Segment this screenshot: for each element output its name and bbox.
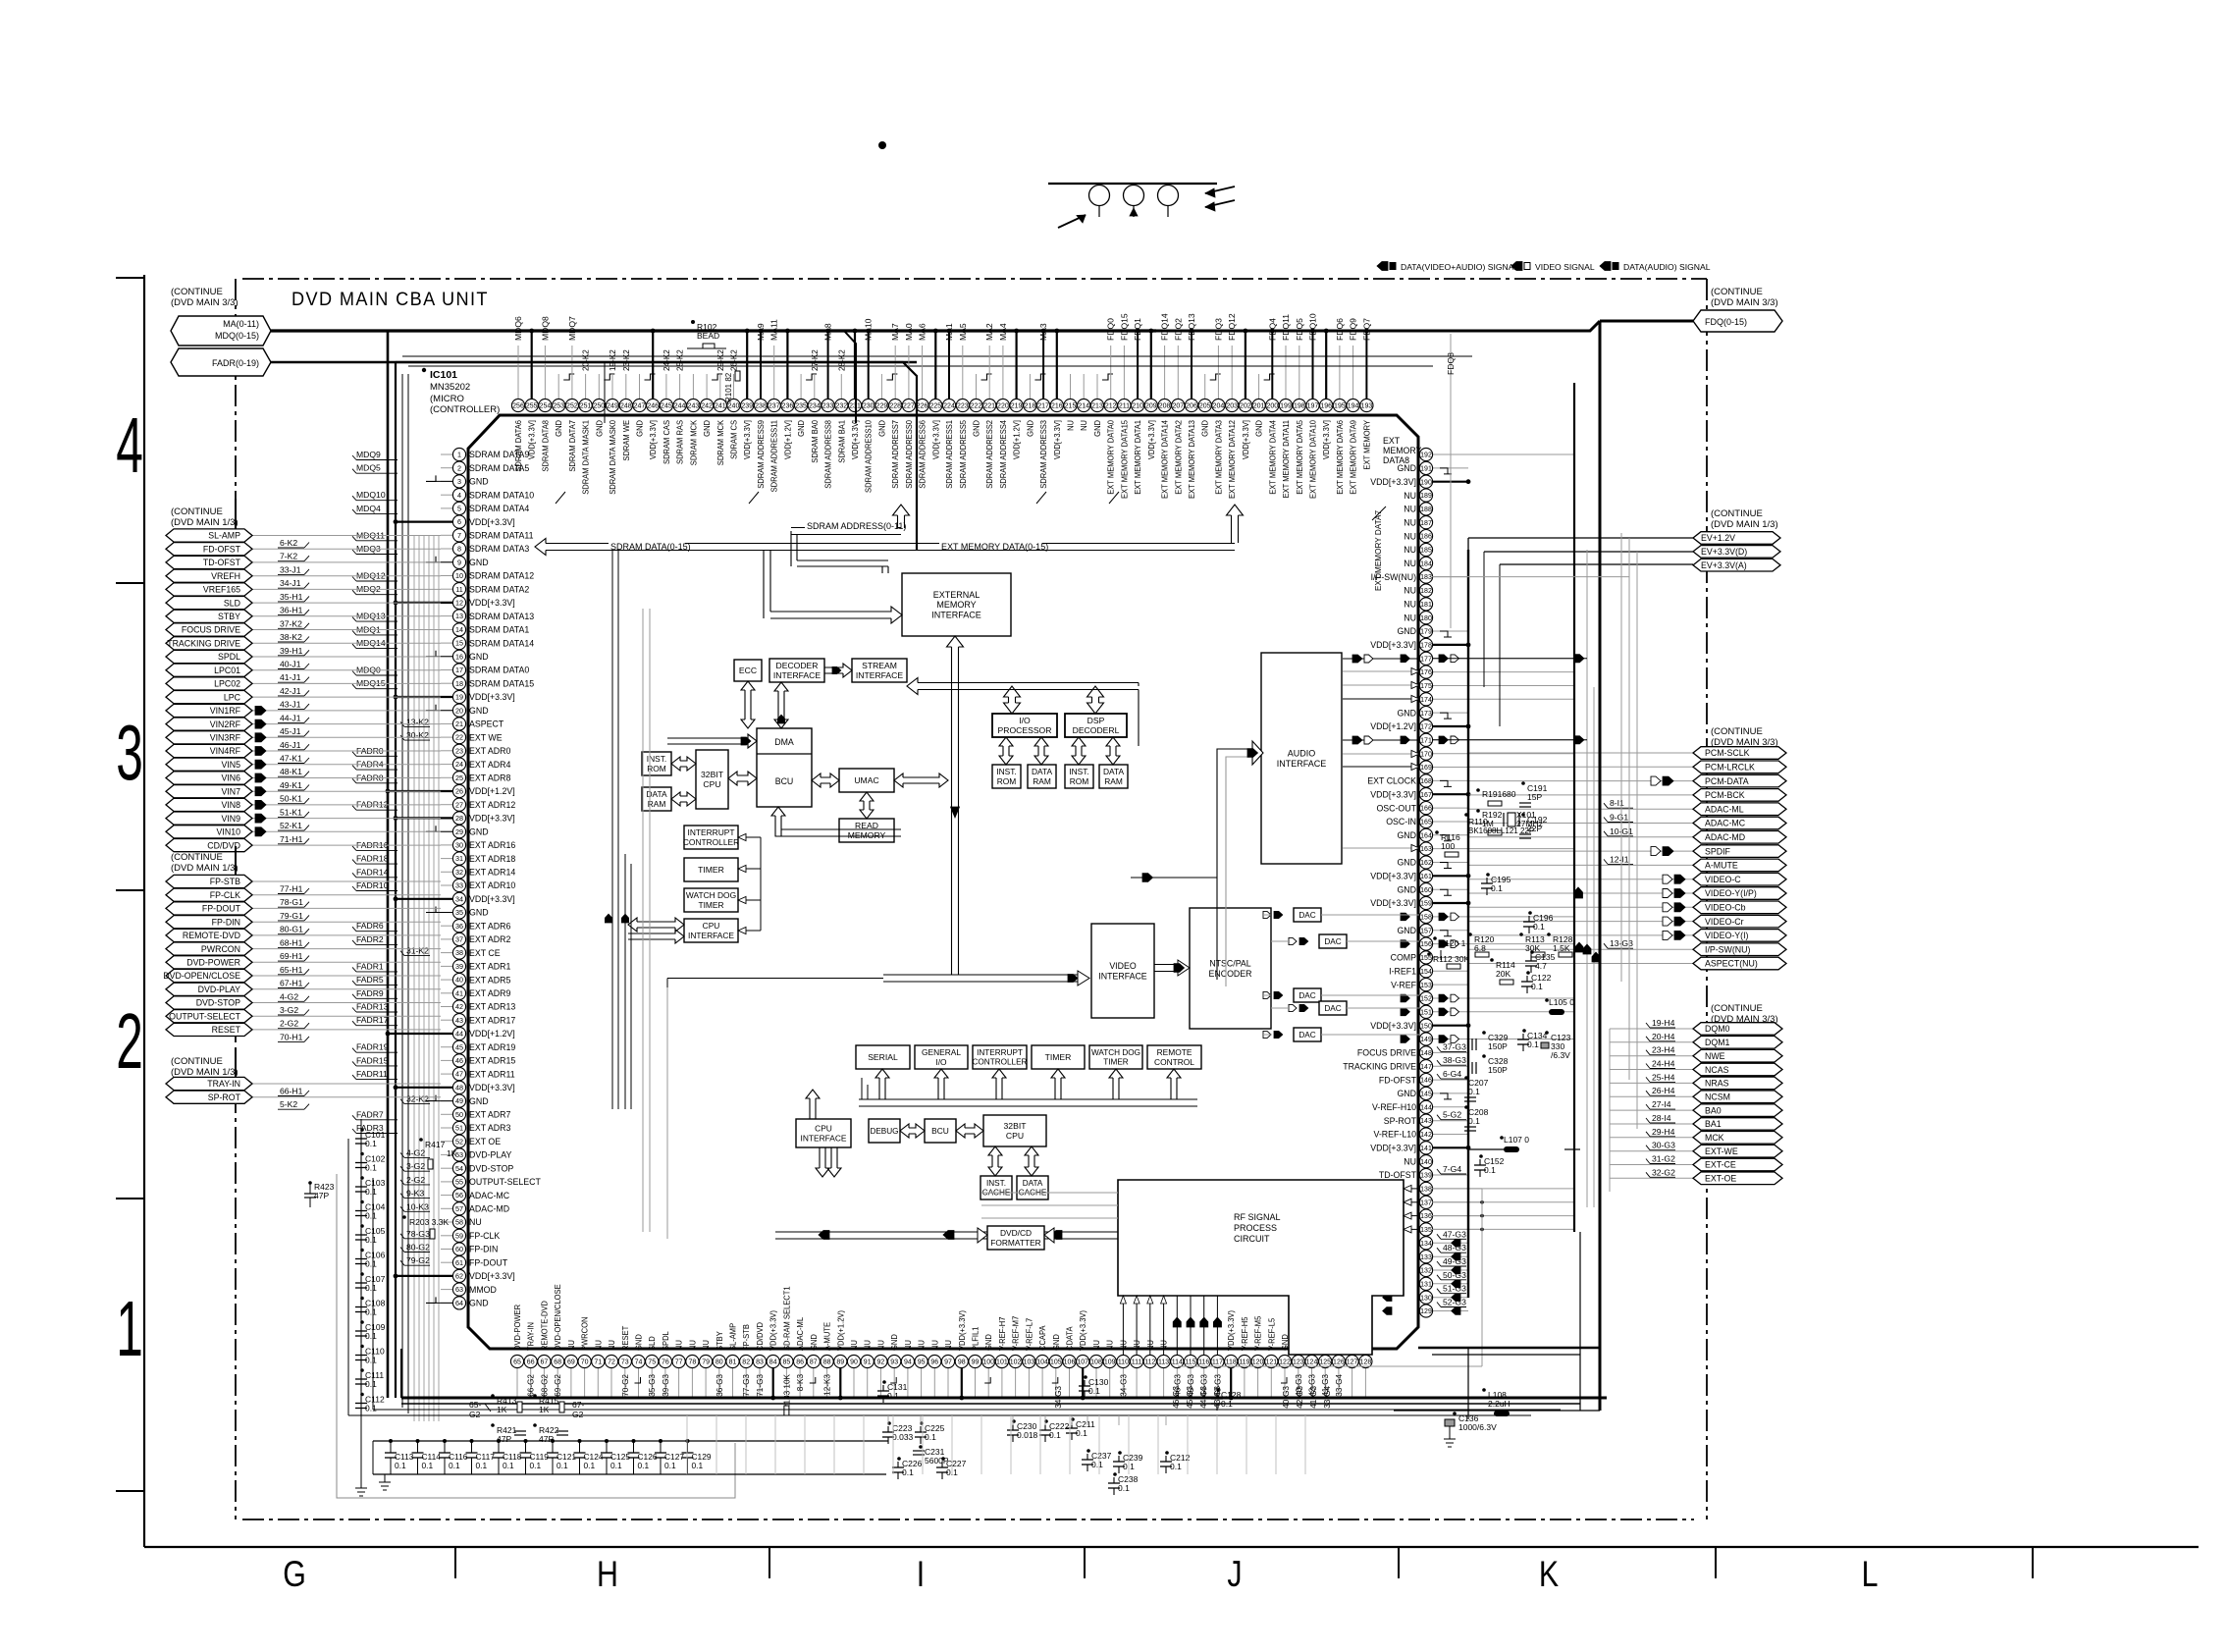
svg-text:L: L <box>1862 1554 1879 1595</box>
svg-text:252: 252 <box>566 403 578 410</box>
svg-text:G2: G2 <box>572 1410 584 1419</box>
svg-text:NU: NU <box>876 1340 886 1351</box>
bus stream crossbar <box>907 678 1139 695</box>
svg-text:GND: GND <box>1200 420 1210 437</box>
svg-text:VIDEO-Cb: VIDEO-Cb <box>1705 903 1746 913</box>
bus tag MA(0-11) MDQ(0-15) <box>171 316 271 346</box>
svg-text:44: 44 <box>455 1030 463 1039</box>
svg-text:GND: GND <box>1093 420 1103 437</box>
svg-text:INTERFACE: INTERFACE <box>931 611 981 620</box>
block 32BIT CPU lower <box>983 1115 1046 1146</box>
svg-text:EXT MEMORY DATA12: EXT MEMORY DATA12 <box>1228 420 1238 499</box>
svg-text:(CONTINUE: (CONTINUE <box>1711 726 1763 737</box>
svg-text:33-J1: 33-J1 <box>280 564 301 574</box>
svg-text:206: 206 <box>1186 403 1197 410</box>
block DATA CACHE <box>1017 1176 1048 1199</box>
svg-text:SDRAM DATA12: SDRAM DATA12 <box>469 571 534 581</box>
svg-text:GND: GND <box>1026 420 1035 437</box>
block REMOTE CONTROL <box>1147 1045 1201 1069</box>
bottom bus wires <box>401 1397 1607 1400</box>
svg-text:EXT MEMORY DATA1: EXT MEMORY DATA1 <box>1134 420 1143 495</box>
svg-text:138: 138 <box>1420 1187 1432 1194</box>
svg-text:DATA(AUDIO) SIGNAL: DATA(AUDIO) SIGNAL <box>1623 262 1711 272</box>
svg-text:ROM: ROM <box>997 776 1017 786</box>
svg-text:VDD[+1.2V]: VDD[+1.2V] <box>469 1029 515 1039</box>
svg-text:EXT ADR0: EXT ADR0 <box>469 746 510 756</box>
svg-text:PCM-SCLK: PCM-SCLK <box>1705 748 1750 758</box>
svg-text:EXT MEMORY DATA11: EXT MEMORY DATA11 <box>1282 420 1292 499</box>
svg-text:BCU: BCU <box>931 1126 949 1136</box>
svg-text:115: 115 <box>1185 1359 1195 1366</box>
svg-text:150P: 150P <box>1488 1041 1508 1051</box>
svg-text:217: 217 <box>1037 403 1049 410</box>
svg-text:86: 86 <box>796 1359 804 1366</box>
svg-text:3-G2: 3-G2 <box>406 1161 425 1171</box>
svg-text:47: 47 <box>455 1070 463 1079</box>
svg-text:DSP: DSP <box>1087 716 1105 725</box>
svg-text:218: 218 <box>1025 403 1036 410</box>
IC101 top pin array pins 256-193 <box>517 346 519 399</box>
svg-text:112: 112 <box>1144 1359 1155 1366</box>
svg-text:19-H4: 19-H4 <box>1652 1018 1675 1028</box>
svg-text:VIDEO SIGNAL: VIDEO SIGNAL <box>1535 262 1595 272</box>
svg-text:FADR15: FADR15 <box>356 1055 389 1065</box>
svg-text:GND: GND <box>555 420 564 437</box>
svg-text:NU: NU <box>1404 559 1416 568</box>
svg-text:EXT ADR4: EXT ADR4 <box>469 760 510 770</box>
resistor R192 1M <box>1476 809 1480 813</box>
svg-text:67-H1: 67-H1 <box>280 979 303 988</box>
svg-text:41-J1: 41-J1 <box>280 672 301 682</box>
capacitor C191 15P <box>1521 781 1525 785</box>
svg-text:SDRAM BA1: SDRAM BA1 <box>837 420 847 463</box>
svg-text:39: 39 <box>455 962 463 971</box>
connector tag NCSM <box>1610 1095 1693 1097</box>
svg-text:MDQ7: MDQ7 <box>567 316 577 341</box>
svg-text:FP-DIN: FP-DIN <box>469 1245 498 1254</box>
bus SDRAM ADDRESS(0-11) <box>893 505 910 528</box>
top-left nested wire corners <box>396 362 917 550</box>
svg-text:102: 102 <box>1010 1359 1022 1366</box>
svg-text:0.1: 0.1 <box>1170 1462 1182 1471</box>
svg-text:MDQ(0-15): MDQ(0-15) <box>215 331 259 341</box>
svg-text:VDD[+3.3V]: VDD[+3.3V] <box>1370 640 1416 650</box>
svg-text:STREAM: STREAM <box>862 661 897 670</box>
svg-text:VDD[+3.3V]: VDD[+3.3V] <box>469 1083 515 1092</box>
svg-text:EXT MEMORY DATA10: EXT MEMORY DATA10 <box>1308 420 1318 499</box>
bus DECODER-STREAM link <box>824 664 852 677</box>
svg-text:78-G3: 78-G3 <box>406 1229 430 1239</box>
svg-text:42-J1: 42-J1 <box>280 686 301 696</box>
svg-text:VDD[+3.3V]: VDD[+3.3V] <box>1322 420 1332 459</box>
svg-text:76: 76 <box>662 1359 669 1366</box>
IC101 bottom pin array pins 65-128 <box>516 1368 518 1398</box>
svg-text:18: 18 <box>455 679 463 688</box>
svg-text:146: 146 <box>1420 1078 1432 1085</box>
svg-text:DECODERL: DECODERL <box>1073 725 1120 735</box>
resistor R114 20K <box>1490 958 1494 962</box>
connector tag VIN2RF <box>251 723 441 725</box>
svg-text:SDRAM MCK: SDRAM MCK <box>715 419 725 465</box>
svg-text:DAC: DAC <box>1298 1031 1315 1039</box>
svg-text:228: 228 <box>889 403 901 410</box>
connector tag PWRCON <box>251 948 441 950</box>
svg-text:VREFH: VREFH <box>211 571 240 581</box>
svg-text:71: 71 <box>594 1359 602 1366</box>
block DATA RAM dsp <box>1099 765 1128 788</box>
svg-text:165: 165 <box>1420 820 1432 826</box>
svg-text:SDRAM DATA15: SDRAM DATA15 <box>469 678 534 688</box>
svg-text:SDRAM DATA MASK0: SDRAM DATA MASK0 <box>609 420 618 495</box>
svg-text:NCAS: NCAS <box>1705 1065 1729 1075</box>
svg-text:31-K2: 31-K2 <box>406 946 429 956</box>
svg-text:148: 148 <box>1420 1050 1432 1057</box>
svg-text:EXT MEMORY DATA13: EXT MEMORY DATA13 <box>1188 420 1197 499</box>
IC101 reference label <box>422 368 426 372</box>
svg-text:TIMER: TIMER <box>698 900 723 910</box>
right trunk lines <box>1573 383 1575 1232</box>
svg-text:47-G3: 47-G3 <box>1443 1229 1466 1239</box>
svg-text:12-I1: 12-I1 <box>1610 854 1629 864</box>
bus to DSP DECODERL <box>1087 686 1104 714</box>
svg-text:CCAPA: CCAPA <box>1038 1325 1048 1351</box>
connector tag VIDEO-Y(I/P) <box>1468 892 1693 894</box>
svg-text:FADR5: FADR5 <box>356 975 384 985</box>
svg-text:240: 240 <box>728 403 740 410</box>
svg-text:51: 51 <box>455 1124 463 1133</box>
svg-text:50-G3: 50-G3 <box>1443 1270 1466 1280</box>
resistor R116 100 <box>1435 830 1439 834</box>
svg-text:117: 117 <box>1212 1359 1223 1366</box>
svg-text:DAC: DAC <box>1324 1004 1341 1013</box>
svg-text:237: 237 <box>768 403 780 410</box>
svg-text:PROCESS: PROCESS <box>1234 1223 1277 1233</box>
svg-text:EXT ADR17: EXT ADR17 <box>469 1015 515 1025</box>
svg-text:4.7: 4.7 <box>1535 961 1547 971</box>
svg-text:DVD-OPEN/CLOSE: DVD-OPEN/CLOSE <box>163 971 240 981</box>
block ECC <box>734 660 762 681</box>
svg-text:EXT-OE: EXT-OE <box>1705 1174 1736 1184</box>
svg-text:COMP: COMP <box>1391 953 1417 963</box>
svg-text:9-K3: 9-K3 <box>406 1189 424 1199</box>
svg-text:34: 34 <box>455 894 463 903</box>
svg-text:81: 81 <box>729 1359 737 1366</box>
svg-text:MA8: MA8 <box>823 323 833 341</box>
svg-text:143: 143 <box>1420 1118 1432 1125</box>
capacitor C223 0.033 <box>887 1426 889 1432</box>
capacitor C226 0.1 <box>897 1462 899 1467</box>
svg-text:BA0: BA0 <box>1705 1105 1722 1115</box>
svg-text:EXT OE: EXT OE <box>469 1137 501 1146</box>
svg-text:177: 177 <box>1420 656 1432 663</box>
svg-text:TD-OFST: TD-OFST <box>1379 1170 1417 1180</box>
svg-text:63: 63 <box>455 1285 463 1294</box>
svg-text:56: 56 <box>455 1191 463 1199</box>
svg-text:12-K3: 12-K3 <box>823 1374 832 1396</box>
svg-text:71-G3: 71-G3 <box>756 1374 765 1397</box>
svg-text:VDD[+3.3V]: VDD[+3.3V] <box>1370 1144 1416 1153</box>
svg-text:ENCODER: ENCODER <box>1209 969 1252 979</box>
svg-text:37: 37 <box>455 935 463 944</box>
svg-text:EXT MEMORY DATA7: EXT MEMORY DATA7 <box>1374 510 1383 591</box>
svg-text:9-G1: 9-G1 <box>1610 813 1628 823</box>
svg-text:DVD/CD: DVD/CD <box>1000 1228 1032 1238</box>
svg-text:170: 170 <box>1420 751 1432 758</box>
capacitor R423 47P <box>308 1181 312 1185</box>
svg-text:ADAC-MD: ADAC-MD <box>1705 832 1745 842</box>
svg-text:161: 161 <box>1420 874 1432 880</box>
svg-text:TRACKING DRIVE: TRACKING DRIVE <box>167 639 240 649</box>
svg-text:23: 23 <box>455 746 463 755</box>
svg-text:159: 159 <box>1420 901 1432 908</box>
resistor R120 6.8 <box>1468 933 1472 936</box>
svg-text:174: 174 <box>1420 697 1432 704</box>
svg-text:DMA: DMA <box>774 737 794 747</box>
svg-text:ECC: ECC <box>739 666 757 675</box>
svg-text:NU: NU <box>1404 600 1416 610</box>
connector tag PCM-LRCLK <box>1468 766 1693 768</box>
svg-text:19: 19 <box>455 693 463 702</box>
svg-text:29-H4: 29-H4 <box>1652 1127 1675 1137</box>
connector tag SPDL <box>251 656 441 658</box>
svg-text:NU: NU <box>1404 545 1416 555</box>
svg-text:27-K2: 27-K2 <box>811 349 820 371</box>
svg-text:219: 219 <box>1011 403 1023 410</box>
svg-text:VIN9: VIN9 <box>221 814 240 824</box>
svg-text:25-K2: 25-K2 <box>676 349 685 371</box>
svg-text:250: 250 <box>593 403 605 410</box>
svg-text:EXT WE: EXT WE <box>469 732 503 742</box>
svg-text:EXT CE: EXT CE <box>469 948 501 958</box>
connector tag VIDEO-Y(I) <box>1468 934 1693 936</box>
resistor R413 1K <box>491 1394 495 1398</box>
svg-text:GND: GND <box>1051 1334 1061 1351</box>
svg-text:0.1: 0.1 <box>1491 883 1503 893</box>
svg-text:3: 3 <box>116 710 143 797</box>
svg-text:GND: GND <box>1397 858 1416 868</box>
svg-text:CONTROLLER: CONTROLLER <box>683 837 739 847</box>
svg-text:FDQ(0-15): FDQ(0-15) <box>1705 317 1747 327</box>
svg-text:EXT ADR19: EXT ADR19 <box>469 1042 515 1052</box>
svg-text:67-: 67- <box>572 1400 584 1410</box>
block 32BIT CPU upper <box>696 750 728 809</box>
svg-text:100: 100 <box>982 1359 994 1366</box>
svg-text:MA3: MA3 <box>1038 323 1048 341</box>
connector tag ADAC-MD <box>1468 836 1693 838</box>
svg-text:FDQ13: FDQ13 <box>1187 313 1196 341</box>
capacitor C231 5600P <box>919 1445 923 1449</box>
svg-text:WATCH DOG: WATCH DOG <box>1091 1048 1140 1057</box>
svg-text:0.1: 0.1 <box>902 1467 914 1477</box>
svg-text:VDD[+3.3V]: VDD[+3.3V] <box>1370 872 1416 881</box>
svg-text:MA10: MA10 <box>864 318 874 341</box>
svg-text:111: 111 <box>1132 1359 1142 1366</box>
svg-text:23-K2: 23-K2 <box>622 349 631 371</box>
svg-text:78-G1: 78-G1 <box>280 897 303 907</box>
svg-text:EXT MEMORY DATA2: EXT MEMORY DATA2 <box>1174 420 1184 495</box>
svg-text:R101 82: R101 82 <box>724 372 733 402</box>
svg-text:MDQ10: MDQ10 <box>356 490 386 500</box>
svg-text:49-K1: 49-K1 <box>280 780 302 790</box>
svg-text:236: 236 <box>782 403 794 410</box>
connector tag EXT-OE <box>1610 1177 1693 1179</box>
svg-text:CIRCUIT: CIRCUIT <box>1234 1234 1270 1244</box>
svg-text:28-K2: 28-K2 <box>837 349 846 371</box>
svg-text:51-G3: 51-G3 <box>1443 1284 1466 1294</box>
svg-text:SDRAM ADDRESS6: SDRAM ADDRESS6 <box>918 420 927 489</box>
svg-text:GND: GND <box>809 1334 819 1351</box>
svg-text:0.1: 0.1 <box>476 1461 488 1470</box>
connector tag FP-STB <box>251 880 441 882</box>
svg-text:VDD[+3.3V]: VDD[+3.3V] <box>1052 420 1062 459</box>
svg-text:225: 225 <box>929 403 941 410</box>
svg-text:234: 234 <box>809 403 821 410</box>
block DATA RAM io <box>1028 765 1056 788</box>
svg-text:MDQ9: MDQ9 <box>356 450 381 459</box>
svg-text:FDQ10: FDQ10 <box>1308 313 1318 341</box>
svg-text:I/P-SW(NU): I/P-SW(NU) <box>1705 944 1750 954</box>
svg-text:183: 183 <box>1420 574 1432 581</box>
svg-text:32: 32 <box>455 868 463 877</box>
svg-text:GND: GND <box>595 420 605 437</box>
svg-text:FP-DOUT: FP-DOUT <box>469 1257 508 1267</box>
svg-text:SDRAM ADDRESS9: SDRAM ADDRESS9 <box>757 420 767 489</box>
connector tag VIN10 <box>251 830 441 832</box>
svg-text:FD-OFST: FD-OFST <box>203 544 241 554</box>
capacitor C195 0.1 <box>1486 878 1488 883</box>
svg-text:25: 25 <box>455 773 463 782</box>
svg-text:DATA: DATA <box>1023 1179 1043 1188</box>
svg-text:74: 74 <box>635 1359 643 1366</box>
svg-text:EXT-WE: EXT-WE <box>1705 1146 1738 1156</box>
svg-text:38: 38 <box>455 948 463 957</box>
svg-text:OSC-OUT: OSC-OUT <box>1376 803 1416 813</box>
svg-text:73: 73 <box>621 1359 629 1366</box>
svg-text:1K: 1K <box>447 1148 457 1158</box>
svg-text:SDRAM DATA7: SDRAM DATA7 <box>567 420 577 472</box>
svg-text:38-G3: 38-G3 <box>1443 1055 1466 1065</box>
svg-text:68: 68 <box>554 1359 561 1366</box>
connector tag VIN7 <box>251 790 441 792</box>
svg-text:FD-OFST: FD-OFST <box>1379 1075 1417 1085</box>
svg-text:28: 28 <box>455 814 463 823</box>
svg-text:EXT ADR8: EXT ADR8 <box>469 773 510 783</box>
svg-text:242: 242 <box>701 403 713 410</box>
svg-text:126: 126 <box>1333 1359 1345 1366</box>
svg-text:(CONTROLLER): (CONTROLLER) <box>430 404 500 415</box>
svg-text:RAM: RAM <box>1104 776 1123 786</box>
connector tag LPC01 <box>251 669 441 671</box>
svg-text:4-G2: 4-G2 <box>406 1147 425 1157</box>
svg-text:EXT ADR12: EXT ADR12 <box>469 800 515 810</box>
svg-text:GND: GND <box>1397 626 1416 636</box>
svg-text:37-G3: 37-G3 <box>1443 1041 1466 1051</box>
svg-text:230: 230 <box>863 403 874 410</box>
svg-text:10-K3: 10-K3 <box>406 1201 429 1211</box>
svg-text:107: 107 <box>1077 1359 1088 1366</box>
svg-text:123: 123 <box>1293 1359 1304 1366</box>
svg-text:NU: NU <box>1092 1340 1102 1351</box>
svg-text:DVD MAIN CBA UNIT: DVD MAIN CBA UNIT <box>291 288 489 309</box>
inductor L105 0 <box>1549 1009 1564 1015</box>
block DECODER INTERFACE <box>769 659 824 682</box>
svg-text:48: 48 <box>455 1083 463 1092</box>
svg-text:VIN3RF: VIN3RF <box>210 733 241 743</box>
svg-text:241: 241 <box>715 403 726 410</box>
svg-text:WATCH DOG: WATCH DOG <box>686 890 736 900</box>
connector tag FOCUS DRIVE <box>251 629 441 631</box>
svg-text:65-: 65- <box>469 1400 481 1410</box>
svg-text:SDRAM ADDRESS3: SDRAM ADDRESS3 <box>1039 420 1049 489</box>
svg-text:SDRAM ADDRESS(0-11): SDRAM ADDRESS(0-11) <box>807 521 906 531</box>
svg-text:0.1: 0.1 <box>1468 1087 1480 1096</box>
svg-text:50-K1: 50-K1 <box>280 794 302 804</box>
svg-text:VDD[+1.2V]: VDD[+1.2V] <box>1012 420 1022 459</box>
svg-text:FP-CLK: FP-CLK <box>210 890 240 900</box>
svg-text:178: 178 <box>1420 643 1432 650</box>
svg-text:85: 85 <box>783 1359 791 1366</box>
svg-text:134: 134 <box>1420 1241 1432 1248</box>
svg-text:46: 46 <box>455 1056 463 1065</box>
svg-text:113: 113 <box>1158 1359 1169 1366</box>
connector tag BA0 <box>1610 1109 1693 1111</box>
svg-text:25-H4: 25-H4 <box>1652 1072 1675 1082</box>
svg-text:120: 120 <box>1252 1359 1264 1366</box>
svg-text:121: 121 <box>1265 1359 1277 1366</box>
svg-text:199: 199 <box>1280 403 1292 410</box>
svg-text:23-H4: 23-H4 <box>1652 1045 1675 1055</box>
bus branch to FDQ pins <box>1227 505 1244 543</box>
svg-text:PLFIL1: PLFIL1 <box>971 1326 980 1351</box>
svg-text:164: 164 <box>1420 832 1432 839</box>
svg-text:210: 210 <box>1132 403 1143 410</box>
svg-text:A-MUTE: A-MUTE <box>822 1321 832 1351</box>
svg-text:69-H1: 69-H1 <box>280 951 303 961</box>
svg-text:0.1: 0.1 <box>365 1259 377 1269</box>
svg-text:VDD(+3.3V): VDD(+3.3V) <box>768 1310 778 1351</box>
svg-text:EV+1.2V: EV+1.2V <box>1701 533 1735 543</box>
connector tag DVD-PLAY <box>251 988 441 990</box>
svg-text:207: 207 <box>1172 403 1184 410</box>
connector tag ADAC-MC <box>1468 823 1693 825</box>
svg-text:I-REF1: I-REF1 <box>1389 967 1416 977</box>
svg-text:EV+3.3V(D): EV+3.3V(D) <box>1701 547 1747 557</box>
svg-text:V-REF-M5: V-REF-M5 <box>1253 1315 1263 1351</box>
svg-text:80-G2: 80-G2 <box>406 1243 430 1252</box>
svg-text:194: 194 <box>1348 403 1359 410</box>
svg-text:84: 84 <box>769 1359 777 1366</box>
svg-text:SDRAM ADDRESS1: SDRAM ADDRESS1 <box>945 420 955 489</box>
svg-text:67: 67 <box>541 1359 549 1366</box>
IC U-IC101 MN35202 microcontroller outline <box>468 415 1418 1349</box>
svg-text:70-H1: 70-H1 <box>280 1032 303 1041</box>
svg-text:EXT ADR6: EXT ADR6 <box>469 921 510 931</box>
label group separators <box>556 492 565 504</box>
svg-text:REMOTE: REMOTE <box>1157 1047 1192 1057</box>
svg-text:24-H4: 24-H4 <box>1652 1059 1675 1069</box>
svg-text:NU: NU <box>469 1217 482 1227</box>
svg-text:69: 69 <box>567 1359 575 1366</box>
svg-text:I: I <box>917 1554 925 1595</box>
svg-text:BEAD: BEAD <box>697 331 719 341</box>
right wire loop to RF bottom <box>1432 1188 1482 1190</box>
svg-text:3: 3 <box>457 477 461 486</box>
svg-text:FDQ1: FDQ1 <box>1133 318 1142 341</box>
capacitor C207 0.1 <box>1464 1076 1468 1080</box>
svg-text:DATA(VIDEO+AUDIO) SIGNAL: DATA(VIDEO+AUDIO) SIGNAL <box>1401 262 1518 272</box>
svg-text:149: 149 <box>1420 1037 1432 1043</box>
svg-text:VDD[+3.3V]: VDD[+3.3V] <box>1146 420 1156 459</box>
